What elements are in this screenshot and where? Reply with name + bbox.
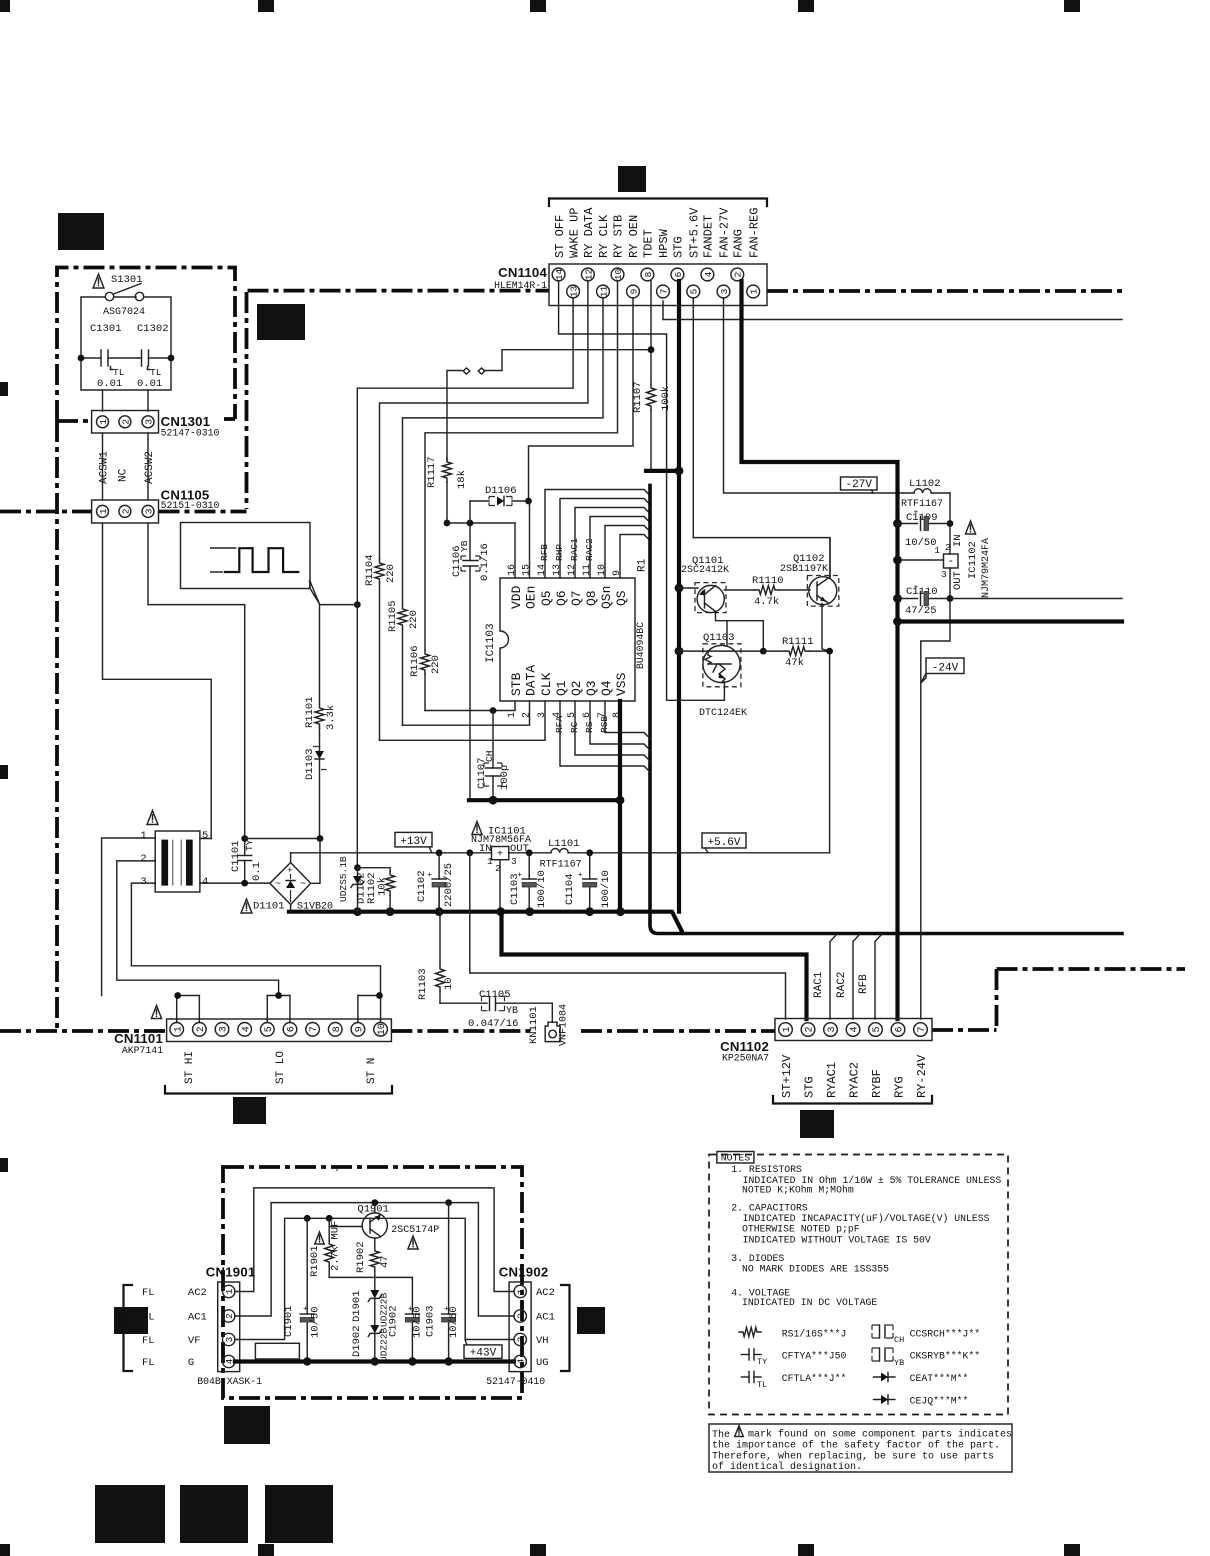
registration mark bottom 4 (798, 1544, 814, 1556)
regulator IC1102 NJM79M24FA (944, 554, 959, 568)
redacted label block B (257, 304, 305, 340)
svg-text:B04B-XASK-1: B04B-XASK-1 (197, 1376, 262, 1387)
CN1902 bracket (561, 1285, 570, 1371)
svg-text:of identical designation.: of identical designation. (712, 1461, 862, 1473)
svg-text:100/10: 100/10 (600, 870, 612, 908)
svg-text:R1902: R1902 (355, 1241, 367, 1273)
wire column x=357 down (356, 605, 358, 868)
svg-text:52151-0310: 52151-0310 (161, 500, 220, 511)
svg-text:1: 1 (98, 419, 109, 425)
svg-text:+: + (497, 850, 503, 861)
node VSS gnd (616, 796, 625, 805)
svg-text:Q3: Q3 (584, 680, 599, 696)
svg-text:3: 3 (719, 288, 730, 294)
svg-text:AC1: AC1 (536, 1312, 555, 1324)
bold -27V bus to right edge (898, 619, 1123, 623)
resistor R1902 (370, 1247, 379, 1271)
registration mark bottom 3 (530, 1544, 546, 1556)
svg-text:2. CAPACITORS: 2. CAPACITORS (731, 1202, 808, 1213)
svg-text:VF: VF (188, 1335, 201, 1347)
resistor R1102 (358, 868, 391, 871)
CN1102 pin 3 (824, 1023, 838, 1037)
CN1101 pin 1 (170, 1023, 184, 1037)
svg-text:Q6: Q6 (554, 590, 569, 606)
svg-text:C1102: C1102 (416, 870, 428, 902)
wire CN1104 pin7 HPSW down (662, 301, 664, 320)
wire IC1103 top pin x=620 to R1 bus (620, 535, 650, 579)
svg-text:VH: VH (536, 1335, 549, 1347)
CN1104 pin 10 (611, 268, 624, 281)
svg-text:3: 3 (143, 419, 154, 425)
registration mark bottom 2 (258, 1544, 274, 1556)
svg-text:VSS: VSS (614, 672, 629, 696)
svg-text:2: 2 (522, 712, 533, 718)
wire Q1103 emitter (723, 682, 725, 687)
node D1902 gnd (371, 1357, 379, 1365)
capacitor C1104 (589, 853, 591, 879)
jumper CN1101 pins9-10 (357, 996, 359, 1023)
svg-text:2.7k MUF: 2.7k MUF (330, 1221, 342, 1271)
wire VDD line y=523 (447, 522, 515, 524)
wire R1110 to Q1102 base (779, 589, 810, 591)
svg-text:1: 1 (507, 712, 518, 718)
svg-text:10: 10 (597, 564, 608, 576)
CN1104 pin 7 (657, 285, 670, 298)
board border dash-dot top right segment (767, 289, 1123, 293)
svg-text:D1101: D1101 (253, 901, 285, 913)
node gnd VSS (616, 907, 625, 916)
CN1102 pin 4 (846, 1023, 860, 1037)
wire R1107 to STG stub (650, 410, 652, 469)
node TDET R1107 (648, 346, 655, 353)
svg-text:47/25: 47/25 (905, 605, 937, 617)
svg-text:UDZS5.1B: UDZS5.1B (338, 856, 349, 902)
svg-text:C1103: C1103 (509, 873, 521, 905)
wire CN1105 pin3 down (148, 523, 245, 839)
svg-text:FAN-27V: FAN-27V (718, 207, 732, 258)
svg-text:STG: STG (803, 1076, 817, 1098)
svg-text:C1107: C1107 (476, 757, 488, 789)
svg-text:10/50: 10/50 (448, 1306, 460, 1338)
svg-text:100k: 100k (660, 386, 672, 411)
svg-text:OUT: OUT (952, 571, 964, 590)
wire HPSW to right edge (663, 319, 1122, 321)
svg-text:FL: FL (142, 1287, 155, 1299)
redacted label block I (95, 1485, 165, 1543)
svg-text:RYBF: RYBF (870, 1069, 884, 1098)
svg-text:NC: NC (118, 468, 130, 482)
switch S1301 (105, 292, 113, 300)
board border dash-dot CN1102 right (932, 1028, 997, 1032)
svg-text:CN1901: CN1901 (206, 1264, 256, 1279)
svg-text:DATA: DATA (524, 665, 539, 696)
node C1901 top (304, 1215, 311, 1222)
svg-text:11: 11 (582, 564, 593, 576)
svg-text:Q2: Q2 (569, 680, 584, 696)
svg-text:ACSW1: ACSW1 (99, 451, 111, 484)
warning triangle transformer (147, 811, 158, 825)
registration mark top 2 (258, 0, 274, 12)
svg-text:RFB: RFB (858, 974, 870, 994)
svg-text:4: 4 (850, 1026, 861, 1032)
svg-text:2: 2 (805, 1026, 816, 1032)
svg-text:-24V: -24V (932, 663, 959, 675)
svg-text:FANG: FANG (732, 229, 746, 258)
wire C1106 down to gnd (469, 566, 471, 800)
wire AC1 top (235, 1203, 514, 1316)
node STG stub (675, 467, 684, 476)
svg-text:Q8: Q8 (584, 590, 599, 606)
wire CN1105 pin1 down (103, 523, 212, 839)
node waveform pointer (354, 601, 361, 608)
node STG to Q1101 base (675, 584, 684, 593)
svg-text:1: 1 (224, 1288, 235, 1294)
wire bridge plus up (290, 853, 292, 863)
node C1902 gnd (408, 1357, 416, 1365)
svg-text:10k: 10k (377, 877, 389, 896)
transformer T1101 core (155, 831, 200, 892)
svg-text:7: 7 (917, 1026, 928, 1032)
svg-text:220: 220 (385, 564, 397, 583)
svg-text:TDET: TDET (642, 229, 656, 258)
svg-text:FL: FL (142, 1335, 155, 1347)
CN1102 pin 6 (891, 1023, 905, 1037)
capacitor C1103 (528, 853, 530, 879)
svg-text:16: 16 (507, 564, 518, 576)
wire RFB (875, 935, 882, 1020)
wire +5.6V rail to R1111 node (829, 651, 831, 853)
svg-text:VDD: VDD (509, 585, 524, 609)
redacted label block C (618, 166, 646, 192)
wire CN1104 pin14 ST OFF jog (559, 281, 725, 700)
svg-text:RYG: RYG (893, 1076, 907, 1098)
svg-text:RAC1: RAC1 (813, 971, 825, 998)
switch S1301 enclosure box (81, 297, 171, 390)
svg-text:RFB: RFB (539, 544, 550, 561)
svg-text:ACSW2: ACSW2 (144, 451, 156, 484)
bold G line (235, 1359, 514, 1363)
wire to bridge right vertex (311, 839, 320, 884)
svg-text:8: 8 (332, 1026, 343, 1032)
capacitor C1901 (306, 1218, 308, 1314)
svg-text:+: + (914, 509, 919, 518)
wire ST+12V to CN1102 pin1 (470, 853, 786, 1019)
svg-text:ST LO: ST LO (275, 1051, 287, 1084)
svg-text:R1104: R1104 (364, 554, 376, 586)
svg-text:RTF1167: RTF1167 (901, 499, 943, 510)
svg-text:3: 3 (143, 508, 154, 514)
board border dash-dot bottom to CN1101 (0, 1029, 167, 1033)
svg-text:C1903: C1903 (425, 1305, 437, 1337)
NOTES diode symbol 2 (874, 1399, 895, 1401)
svg-text:2: 2 (120, 508, 131, 514)
svg-text:IN: IN (952, 534, 964, 547)
svg-text:0.047/16: 0.047/16 (468, 1018, 518, 1030)
CN1902 pin 2 (514, 1310, 526, 1322)
capacitor C1105 (440, 1002, 487, 1004)
svg-text:CN1104: CN1104 (498, 265, 547, 280)
svg-text:UG: UG (536, 1357, 549, 1369)
svg-text:+5.6V: +5.6V (707, 837, 740, 849)
svg-text:INDICATED IN DC VOLTAGE: INDICATED IN DC VOLTAGE (742, 1297, 877, 1308)
svg-text:14: 14 (554, 269, 565, 281)
resistor R1117 (443, 458, 452, 482)
transistor Q1102 2SB1197K (809, 577, 837, 605)
CN1101 pin 5 (261, 1023, 275, 1037)
svg-text:CH: CH (894, 1335, 904, 1345)
svg-text:13: 13 (569, 286, 580, 298)
node gnd IC1101 (496, 907, 505, 916)
registration mark bottom 5 (1064, 1544, 1080, 1556)
svg-text:6: 6 (287, 1026, 298, 1032)
svg-text:C1302: C1302 (137, 323, 169, 335)
svg-text:L1102: L1102 (909, 478, 941, 490)
svg-text:C1104: C1104 (564, 873, 576, 905)
registration mark top 1 (0, 0, 10, 12)
svg-text:1: 1 (173, 1026, 184, 1032)
voltage label +13V (395, 832, 432, 847)
svg-text:The: The (712, 1429, 730, 1441)
svg-text:AC1: AC1 (188, 1312, 207, 1324)
wire transformer pin5 stub (200, 838, 211, 840)
svg-text:G: G (188, 1357, 194, 1369)
wire AC2 top (235, 1188, 514, 1292)
svg-text:2: 2 (224, 1313, 235, 1319)
wire Q1901 base (329, 1226, 362, 1228)
svg-text:3. DIODES: 3. DIODES (731, 1253, 784, 1264)
svg-text:C1901: C1901 (283, 1305, 295, 1337)
svg-text:R1101: R1101 (304, 696, 316, 728)
CN1104 pin 14 (552, 268, 565, 281)
connector CN1301 (92, 411, 159, 434)
svg-text:+: + (578, 871, 583, 880)
svg-text:4.7k: 4.7k (754, 596, 779, 608)
wire CN1104 pin5 ST+5.6V to Q1102 (693, 298, 830, 577)
wire node to R1101 (320, 605, 358, 704)
svg-text:3.3k: 3.3k (325, 705, 337, 730)
node -27V bus (893, 617, 902, 626)
svg-text:RFA: RFA (554, 716, 565, 733)
capacitor C1301 (81, 357, 101, 359)
node C1101 bottom (241, 880, 248, 887)
svg-text:5: 5 (689, 288, 700, 294)
CN1902 pin 1 (514, 1285, 526, 1297)
svg-text:10/50: 10/50 (905, 537, 937, 549)
svg-text:RY OEN: RY OEN (627, 215, 641, 258)
svg-text:mark found on some component p: mark found on some component parts indic… (748, 1429, 1012, 1441)
connector CN1105 (92, 500, 159, 523)
wire transformer pin4 to bridge (200, 882, 270, 884)
svg-text:CFTLA***J**: CFTLA***J** (782, 1373, 847, 1384)
capacitor C1902 (411, 1277, 413, 1314)
NOTES resistor symbol (739, 1328, 761, 1337)
wire IC1101 gnd pin (499, 860, 501, 912)
warning triangle R1901 (336, 1169, 338, 1171)
CN1101 pin 6 (283, 1023, 297, 1037)
svg-text:CN1101: CN1101 (114, 1031, 163, 1046)
redacted label block A (58, 213, 104, 250)
FL sub-board dash-dot box (223, 1167, 522, 1398)
svg-text:ASG7024: ASG7024 (103, 307, 145, 318)
connector CN1902 (509, 1282, 531, 1372)
wire R1103 column from rail (438, 888, 440, 912)
resistor R1101 (315, 704, 324, 728)
wire transformer pin1 (102, 838, 156, 996)
wire VF line (235, 1218, 514, 1339)
zener diode D1102 UDZS5.1B (354, 864, 361, 871)
connector CN1101 (167, 1019, 392, 1042)
svg-text:R1105: R1105 (387, 600, 399, 632)
warning triangle R1901 (315, 1232, 324, 1244)
svg-text:3: 3 (827, 1026, 838, 1032)
svg-text:FANDET: FANDET (702, 215, 716, 258)
wire L1102 right corner down (949, 493, 951, 524)
connector CN1104 top bracket (549, 199, 767, 207)
wire IC1103 top pin x=605 to R1 bus (605, 526, 650, 579)
NOTES TY capacitor symbol (741, 1354, 749, 1356)
svg-text:13: 13 (552, 564, 563, 576)
svg-text:STG: STG (672, 236, 686, 258)
node D1106 right (525, 498, 532, 505)
svg-text:RY STB: RY STB (612, 215, 626, 258)
board border dash-dot top left segment (248, 289, 550, 293)
wire CN1104 pin3 FAN-27V down (724, 298, 915, 493)
wire Q1901 collector (374, 1203, 376, 1213)
svg-text:0.1: 0.1 (251, 862, 263, 881)
CN1104 pin 13 (567, 285, 580, 298)
svg-text:7: 7 (309, 1026, 320, 1032)
wire Q1901 emitter to R1902 (374, 1238, 376, 1247)
svg-text:CFTYA***J50: CFTYA***J50 (782, 1351, 847, 1362)
redacted label block D (below CN1101) (233, 1097, 266, 1124)
svg-text:ST OFF: ST OFF (553, 215, 567, 258)
svg-text:R1117: R1117 (426, 456, 438, 488)
redacted label block E (below CN1102) (800, 1110, 834, 1138)
svg-text:RY-24V: RY-24V (915, 1054, 929, 1098)
svg-text:3: 3 (224, 1336, 235, 1342)
svg-text:NJM79M24FA: NJM79M24FA (981, 538, 992, 598)
wire D1106 node to IC pin15 (529, 501, 531, 578)
resistor R1901 (328, 1218, 330, 1240)
svg-text:12: 12 (567, 564, 578, 576)
svg-text:1: 1 (516, 1288, 527, 1294)
svg-text:0.01: 0.01 (137, 378, 162, 390)
svg-text:1. RESISTORS: 1. RESISTORS (731, 1164, 802, 1175)
svg-text:D1103: D1103 (304, 748, 316, 780)
CN1901 pin 4 (223, 1355, 235, 1367)
node gnd C1102 (435, 907, 444, 916)
svg-text:RAC2: RAC2 (836, 972, 848, 998)
CN1101 pin 4 (238, 1023, 252, 1037)
registration mark left 3 (0, 1158, 8, 1172)
CN1902 pin 3 (514, 1333, 526, 1345)
svg-text:TL: TL (757, 1380, 767, 1390)
CN1104 pin 6 (671, 268, 684, 281)
svg-text:RYAC1: RYAC1 (825, 1062, 839, 1098)
CN1101 pin 8 (328, 1023, 342, 1037)
svg-text:~: ~ (275, 880, 281, 891)
transistor Q1901 2SC5174P (362, 1213, 387, 1238)
node C1107 top (490, 707, 497, 714)
svg-text:QS: QS (614, 590, 629, 606)
NOTES title box (717, 1152, 754, 1164)
wire TDET jumper loop (484, 350, 651, 371)
capacitor C1903 (445, 1199, 452, 1206)
svg-text:6: 6 (673, 271, 684, 277)
CN1104 pin 1 (747, 285, 760, 298)
wire IC1103 top pin x=575 to R1 bus (575, 508, 650, 579)
registration mark top 3 (530, 0, 546, 12)
svg-text:Q1103: Q1103 (703, 632, 735, 644)
wire y=838.5 to D1103 column (245, 838, 320, 840)
CN1901 pin 1 (223, 1285, 235, 1297)
svg-text:D1106: D1106 (485, 485, 517, 497)
transistor Q1103 DTC124EK (703, 645, 740, 682)
node C1102 rail (436, 849, 443, 856)
CN1301 sub-board dash-dot box (57, 268, 235, 422)
NOTES CH capacitor symbol (872, 1325, 893, 1338)
wire local gnd bus y=800 (469, 798, 620, 802)
bold stub R1107 to STG (646, 469, 679, 473)
svg-text:1: 1 (934, 545, 940, 556)
wire transformer pin2 (117, 861, 279, 996)
wire IC1102 OUT down (921, 568, 950, 1019)
svg-text:4: 4 (202, 876, 208, 888)
svg-text:CN1902: CN1902 (499, 1264, 549, 1279)
wire IC1103 top pin x=560 to R1 bus (560, 499, 650, 579)
CN1104 pin 12 (582, 268, 595, 281)
svg-text:1: 1 (140, 830, 146, 842)
voltage label +43V (464, 1345, 502, 1359)
node C1903 gnd (444, 1357, 452, 1365)
CN1102 bracket (773, 1096, 932, 1104)
svg-text:15: 15 (522, 564, 533, 576)
wire CN1104 pin12 RY DATA to column (380, 281, 588, 559)
wire Q1102 collector down (822, 604, 830, 652)
waveform callout box (181, 523, 311, 589)
CN1102 pin 7 (914, 1023, 928, 1037)
svg-text:D1901: D1901 (351, 1290, 363, 1322)
svg-text:AKP7141: AKP7141 (122, 1045, 163, 1056)
wire IC1103 pin2 DATA (403, 701, 530, 725)
node C1104 rail (586, 849, 593, 856)
svg-text:VNF1084: VNF1084 (559, 1004, 570, 1046)
jumper CN1101 pins5-6 (266, 996, 268, 1023)
board border dash-dot CN1105 right (159, 510, 247, 514)
resistor R1107 (647, 384, 656, 410)
wire IC1103 bottom pin x=560 to R1 bus (560, 701, 650, 772)
svg-text:ST+5.6V: ST+5.6V (688, 207, 702, 258)
NOTES dashed box (709, 1155, 1008, 1415)
voltage label +5.6V (702, 833, 746, 848)
CN1104 pin 5 (687, 285, 700, 298)
svg-text:HPSW: HPSW (657, 228, 671, 258)
redacted label block F (left of CN1901) (114, 1307, 148, 1334)
node C1110 right (947, 595, 954, 602)
registration mark left 1 (0, 382, 8, 396)
wire C1109 to IC1102 IN (949, 524, 951, 555)
NOTES diode symbol 1 (874, 1376, 895, 1378)
main gnd bus A bold (289, 912, 682, 932)
node C1103 rail (526, 849, 533, 856)
svg-text:IC1102: IC1102 (967, 541, 979, 579)
wire IC1103 top pin x=545 to R1 bus (545, 490, 650, 579)
wire CN1104 pin9 RY OEN to D1106 (529, 298, 634, 501)
warning triangle IC1102 (965, 521, 975, 534)
svg-text:ST HI: ST HI (184, 1051, 196, 1084)
wire diamonds to R1117 (447, 371, 462, 461)
svg-text:R1103: R1103 (417, 968, 429, 1000)
